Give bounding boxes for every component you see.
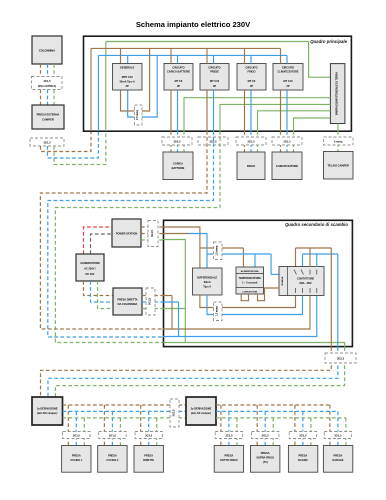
frigo load box bbox=[237, 152, 265, 180]
svg-text:Quadro secondario di scambio: Quadro secondario di scambio bbox=[285, 222, 348, 227]
alimentatore box bbox=[76, 254, 104, 281]
wire N drop presa cucina 2 bbox=[111, 411, 113, 445]
wire PE drop presa bagno bbox=[310, 418, 312, 446]
colonnina box bbox=[32, 36, 62, 64]
presa sopra frigo box bbox=[251, 446, 280, 473]
cable label 3G1,5 between derivazioni bbox=[170, 399, 179, 427]
svg-text:(lato DX camper): (lato DX camper) bbox=[37, 411, 57, 415]
svg-text:MTD C16: MTD C16 bbox=[122, 75, 133, 79]
svg-text:3G1,5: 3G1,5 bbox=[299, 433, 307, 437]
cable label 3G1,5 cucina 1 bbox=[63, 432, 90, 439]
wire L climatizzatore cable bbox=[280, 131, 282, 152]
svg-text:MT C16: MT C16 bbox=[210, 79, 220, 83]
svg-text:PRESA: PRESA bbox=[144, 454, 153, 458]
svg-text:DC 30V: DC 30V bbox=[86, 272, 95, 276]
presa garage box bbox=[323, 446, 352, 473]
wire N carica batterie cable bbox=[177, 131, 179, 152]
wire L drop presa bagno bbox=[294, 405, 296, 446]
barra equipotenziale di terra bbox=[330, 64, 345, 124]
wire N power station feed inside bbox=[189, 234, 272, 269]
wire N clima drops bbox=[286, 55, 288, 131]
cable label 3G1,5 sopra frigo bbox=[252, 432, 279, 439]
wire N climatizzatore cable bbox=[286, 131, 288, 152]
cable label 2,5 mmq bbox=[135, 105, 143, 125]
wire N prese circuit long run to secondary bbox=[48, 131, 214, 337]
svg-text:GENERALE: GENERALE bbox=[120, 66, 135, 70]
svg-text:DIFFERENZIALE: DIFFERENZIALE bbox=[197, 276, 217, 280]
breaker generale bbox=[113, 64, 143, 91]
wire L bus bbox=[91, 47, 281, 49]
svg-text:2a DERIVAZIONE: 2a DERIVAZIONE bbox=[191, 407, 212, 411]
wire PE riser input bbox=[105, 42, 107, 132]
wire L frigo drops bbox=[244, 48, 246, 131]
wire L drop presa dinette bbox=[140, 405, 142, 446]
presa cucina 1 box bbox=[62, 446, 91, 473]
svg-text:CARICA: CARICA bbox=[173, 162, 183, 166]
breaker circuito climatizzatore bbox=[273, 64, 303, 91]
wire L contattore output bbox=[310, 248, 331, 347]
wire PE drop presa cucina 1 bbox=[83, 418, 85, 446]
1a derivazione box bbox=[32, 397, 63, 425]
wire PE prese fan bbox=[220, 104, 330, 131]
svg-text:ALIMENTATORE: ALIMENTATORE bbox=[80, 261, 100, 265]
wire PE presa esterna to quadro principale bbox=[54, 131, 106, 165]
presa bagno box bbox=[288, 446, 317, 473]
wire L drop temporizzatore bbox=[242, 248, 244, 267]
svg-text:CIRCUITO: CIRCUITO bbox=[172, 66, 184, 70]
wire N label to presa esterna bbox=[47, 90, 49, 106]
wire L carica batterie cable bbox=[170, 131, 172, 152]
cable label 3G1,5 bagno bbox=[289, 432, 316, 439]
telaio camper box bbox=[324, 152, 354, 180]
svg-text:3G1,5: 3G1,5 bbox=[109, 433, 117, 437]
wire L power station feed inside bbox=[163, 227, 243, 268]
wire L drop contattore top bbox=[296, 248, 332, 267]
contattore box bbox=[279, 267, 324, 296]
cable label 3G1,5 garage bbox=[324, 432, 351, 439]
wire PE climatizzatore cable bbox=[293, 131, 295, 152]
svg-text:2NA - 2NC: 2NA - 2NC bbox=[299, 281, 312, 285]
svg-text:CIRCUITO: CIRCUITO bbox=[208, 66, 220, 70]
svg-text:CIRCUITO: CIRCUITO bbox=[282, 66, 294, 70]
presa dinette box bbox=[134, 446, 163, 473]
wire PE telaio from barra bbox=[337, 124, 339, 132]
svg-text:PRESA: PRESA bbox=[108, 454, 117, 458]
wire N differenziale out to contattore bottom bbox=[207, 295, 303, 315]
svg-text:BAGNO: BAGNO bbox=[298, 458, 307, 462]
svg-text:3G1,5: 3G1,5 bbox=[150, 229, 154, 237]
carica batterie load box bbox=[163, 152, 193, 180]
wire PE power station to panel bbox=[141, 239, 163, 241]
svg-text:1,5 mmq: 1,5 mmq bbox=[216, 306, 219, 316]
svg-text:30mA Tipo A: 30mA Tipo A bbox=[120, 80, 135, 84]
wire PE frigo cable bbox=[257, 131, 259, 152]
presa sotto frigo box bbox=[214, 446, 243, 473]
wire N colonnina bus inside bbox=[163, 296, 317, 337]
presa diretta da colonnina box bbox=[113, 288, 142, 315]
svg-text:3G1,5: 3G1,5 bbox=[334, 433, 342, 437]
svg-text:PRESA: PRESA bbox=[299, 454, 308, 458]
wire N drop presa garage bbox=[337, 411, 339, 445]
wire L frigo cable bbox=[244, 131, 246, 152]
wire L 2a east run bbox=[216, 404, 330, 406]
svg-text:FRIGO: FRIGO bbox=[247, 164, 255, 168]
wire PE power station feed inside bbox=[163, 240, 185, 343]
wire N colonnina to cable label bbox=[47, 64, 49, 77]
svg-text:3G1,5: 3G1,5 bbox=[148, 297, 152, 305]
svg-text:CLIMATIZZATORE: CLIMATIZZATORE bbox=[276, 164, 299, 168]
svg-text:2,5 mmq: 2,5 mmq bbox=[136, 110, 139, 120]
wire N drop presa sotto frigo bbox=[228, 411, 230, 445]
wire L prese circuit long run to secondary bbox=[40, 131, 207, 329]
wire L prese drops bbox=[206, 48, 208, 131]
cable label 3G1,5 sotto frigo bbox=[215, 432, 242, 439]
wire PE carica batterie cable bbox=[183, 131, 185, 152]
svg-text:TELAIO CAMPER: TELAIO CAMPER bbox=[327, 164, 349, 168]
svg-text:3G1,5: 3G1,5 bbox=[225, 433, 233, 437]
wire L clima drops bbox=[280, 48, 282, 131]
wire N power station to panel bbox=[141, 233, 163, 235]
cable label 3G1,5 frigo bbox=[236, 137, 266, 145]
svg-text:Quadro principale: Quadro principale bbox=[310, 39, 347, 44]
quadro secondario enclosure bbox=[164, 220, 353, 346]
svg-text:PRESA: PRESA bbox=[225, 454, 234, 458]
svg-text:CARICA BATTERIE: CARICA BATTERIE bbox=[167, 70, 190, 74]
svg-text:(TV): (TV) bbox=[263, 460, 268, 464]
svg-text:COLONNINA: COLONNINA bbox=[39, 49, 55, 53]
wire N presa esterna to quadro principale bbox=[48, 131, 99, 158]
cable label 3G1,5 25m bbox=[32, 77, 63, 90]
svg-text:3G1,5: 3G1,5 bbox=[73, 433, 81, 437]
svg-text:MT C6: MT C6 bbox=[248, 79, 256, 83]
wire N drop temporizzatore bbox=[254, 254, 256, 267]
breaker circuito prese bbox=[200, 64, 229, 91]
cable label 6 mmq telaio bbox=[324, 137, 354, 145]
wire PE bus to barra bbox=[106, 42, 331, 78]
svg-text:3G1,5: 3G1,5 bbox=[172, 409, 176, 417]
wire N drop contattore top bbox=[303, 254, 338, 267]
wire PE frigo fan bbox=[258, 111, 331, 131]
wire N drop presa dinette bbox=[148, 411, 150, 445]
svg-text:CAMPER: CAMPER bbox=[42, 118, 54, 122]
wire L generale output loop bbox=[121, 48, 150, 111]
wire PE secondary output down bbox=[55, 347, 344, 397]
wire PE batterie fan bbox=[184, 98, 330, 131]
wire N generale output loop bbox=[128, 55, 158, 117]
svg-text:1 ÷ 3 secondi: 1 ÷ 3 secondi bbox=[242, 282, 258, 285]
wire L presa diretta to panel bbox=[142, 295, 163, 297]
wire N prese drops bbox=[213, 55, 215, 131]
wire PE colonnina to cable label bbox=[53, 64, 55, 77]
wire PE drop presa sotto frigo bbox=[236, 418, 238, 446]
svg-text:CONTATTORE: CONTATTORE bbox=[242, 291, 257, 294]
wire L alimentatore presa diretta bbox=[84, 281, 114, 296]
svg-text:PRESA ESTERNA: PRESA ESTERNA bbox=[37, 113, 60, 117]
svg-text:ALIMENTAZIONE: ALIMENTAZIONE bbox=[241, 270, 259, 273]
wire L riser input bbox=[90, 48, 92, 131]
svg-text:GARAGE: GARAGE bbox=[332, 458, 343, 462]
wire N alimentatore presa diretta bbox=[91, 281, 114, 302]
cable label 3G2,5 secondary output bbox=[325, 353, 356, 363]
svg-text:PRESE: PRESE bbox=[210, 70, 219, 74]
svg-text:2P: 2P bbox=[213, 84, 216, 88]
climatizzatore load box bbox=[272, 152, 302, 180]
wire PE drop presa cucina 2 bbox=[119, 418, 121, 446]
cable label 3G1,5 power station bbox=[148, 221, 158, 247]
wire N bobina feed bbox=[271, 254, 279, 274]
wire L drop presa cucina 1 bbox=[67, 405, 69, 446]
presa cucina 2 box bbox=[98, 446, 127, 473]
cable label 1,5 mmq upper bbox=[214, 242, 223, 260]
svg-text:DA COLONNINA: DA COLONNINA bbox=[118, 302, 138, 306]
svg-text:6 mmq: 6 mmq bbox=[334, 139, 343, 143]
wire L label to presa esterna bbox=[40, 90, 42, 106]
cable label 1,5 mmq lower bbox=[214, 302, 223, 321]
wire L drop presa cucina 2 bbox=[103, 405, 105, 446]
svg-text:BARRA EQUIPOTENZIALE DI TERRA: BARRA EQUIPOTENZIALE DI TERRA bbox=[336, 72, 339, 115]
svg-text:PRESA DIRETTA: PRESA DIRETTA bbox=[117, 298, 137, 302]
breaker circuito carica batterie bbox=[164, 64, 193, 91]
cable label 3G2,5 prese bbox=[198, 137, 228, 145]
svg-text:3G2,5: 3G2,5 bbox=[173, 139, 181, 143]
svg-text:SOTTO FRIGO: SOTTO FRIGO bbox=[220, 458, 238, 462]
wire L presa esterna to quadro principale bbox=[41, 131, 92, 152]
wire N 2a east run bbox=[216, 410, 338, 412]
svg-text:3G1,5: 3G1,5 bbox=[262, 433, 270, 437]
wire telaio cable dashed bbox=[337, 131, 339, 152]
wire N bus bbox=[98, 54, 287, 56]
temporizzatore box bbox=[236, 267, 264, 294]
svg-text:3G1,5: 3G1,5 bbox=[43, 79, 51, 83]
wire coil U temporizzatore bbox=[241, 294, 248, 301]
svg-text:CONTATTORE: CONTATTORE bbox=[297, 277, 315, 281]
svg-text:POWER STATION: POWER STATION bbox=[116, 232, 138, 236]
wire PE alimentatore presa diretta bbox=[98, 281, 114, 309]
svg-text:3G1,5: 3G1,5 bbox=[247, 139, 255, 143]
wire DC- alimentatore to power station bbox=[91, 234, 113, 254]
svg-text:PRESA: PRESA bbox=[261, 451, 270, 455]
wire L drop presa sotto frigo bbox=[220, 405, 222, 446]
wire N batterie drops bbox=[177, 55, 179, 131]
svg-text:Schema impianto elettrico 230V: Schema impianto elettrico 230V bbox=[136, 20, 251, 29]
wire L colonnina bus inside bbox=[163, 296, 310, 330]
svg-text:MT C10: MT C10 bbox=[283, 79, 293, 83]
svg-text:CIRCUITO: CIRCUITO bbox=[245, 66, 257, 70]
wire N drop presa sopra frigo bbox=[264, 411, 266, 445]
svg-text:3G1,5: 3G1,5 bbox=[283, 139, 291, 143]
svg-text:AC 230V /: AC 230V / bbox=[84, 267, 96, 271]
wire L colonnina to cable label bbox=[40, 64, 42, 77]
wire PE label to presa esterna bbox=[53, 90, 55, 106]
wire L batterie drops bbox=[170, 48, 172, 131]
wire N riser input bbox=[97, 55, 99, 131]
svg-text:1,5 mmq: 1,5 mmq bbox=[216, 245, 219, 255]
power station box bbox=[112, 219, 141, 247]
cable label 3G1,5 clima bbox=[272, 137, 302, 145]
quadro principale enclosure bbox=[84, 36, 352, 131]
svg-text:Tipo A: Tipo A bbox=[203, 285, 211, 289]
wire N frigo drops bbox=[250, 55, 252, 131]
svg-text:(25m H07RN-F): (25m H07RN-F) bbox=[38, 84, 56, 88]
svg-text:BATTERIE: BATTERIE bbox=[172, 166, 185, 170]
svg-text:2P: 2P bbox=[286, 84, 289, 88]
svg-text:1a DERIVAZIONE: 1a DERIVAZIONE bbox=[37, 407, 58, 411]
wire PE bus inside bbox=[163, 343, 345, 348]
wire N 1a to 2a derivazione bbox=[63, 410, 187, 412]
wire N contattore output bbox=[317, 254, 338, 347]
cable label 3G1,5 dinette bbox=[135, 432, 162, 439]
wire L 1a to 2a derivazione bbox=[63, 404, 187, 406]
wire PE drop presa garage bbox=[345, 418, 347, 446]
svg-text:CLIMATIZZATORE: CLIMATIZZATORE bbox=[278, 71, 299, 74]
svg-text:2P: 2P bbox=[177, 84, 180, 88]
wire L secondary output down bbox=[41, 347, 332, 397]
wire PE presa diretta to panel bbox=[142, 308, 163, 310]
svg-text:FRIGO: FRIGO bbox=[247, 70, 255, 74]
wire DC+ alimentatore to power station bbox=[84, 227, 113, 254]
wire L power station to panel bbox=[141, 226, 163, 228]
svg-text:CUCINA 2: CUCINA 2 bbox=[106, 458, 119, 462]
wire PE prese circuit long run to secondary bbox=[55, 131, 220, 343]
svg-text:SOPRA FRIGO: SOPRA FRIGO bbox=[256, 456, 274, 460]
wire PE drop presa sopra frigo bbox=[272, 418, 274, 446]
wire PE clima fan bbox=[294, 118, 331, 131]
wire N frigo cable bbox=[250, 131, 252, 152]
wire N presa diretta to panel bbox=[142, 301, 163, 303]
cable label 3G1,5 under presa esterna bbox=[30, 138, 64, 146]
svg-text:PRESA: PRESA bbox=[334, 454, 343, 458]
presa esterna camper box bbox=[32, 105, 64, 129]
cable label 3G2,5 batterie bbox=[162, 137, 192, 145]
wire PE drop presa dinette bbox=[156, 418, 158, 446]
svg-text:3G1,5: 3G1,5 bbox=[43, 140, 51, 144]
breaker circuito frigo bbox=[237, 64, 266, 91]
svg-text:PRESA: PRESA bbox=[72, 454, 81, 458]
svg-text:30mA: 30mA bbox=[204, 280, 211, 284]
svg-text:2P: 2P bbox=[250, 84, 253, 88]
wire N drop presa cucina 1 bbox=[75, 411, 77, 445]
wire L differenziale out to contattore bottom bbox=[200, 295, 296, 308]
wire L drop presa garage bbox=[329, 405, 331, 446]
svg-text:BOBINA: BOBINA bbox=[281, 276, 284, 285]
svg-text:MT C6: MT C6 bbox=[175, 79, 183, 83]
wire PE 2a east run bbox=[216, 417, 346, 419]
svg-text:3G1,5: 3G1,5 bbox=[145, 433, 153, 437]
wire N drop presa bagno bbox=[302, 411, 304, 445]
svg-text:2P: 2P bbox=[126, 84, 129, 88]
svg-text:3G2,5: 3G2,5 bbox=[337, 357, 345, 361]
wire N drop into generale bbox=[127, 55, 129, 63]
wire L drop into generale bbox=[120, 48, 122, 63]
cable label 3G1,5 cucina 2 bbox=[99, 432, 126, 439]
wire L drop presa sopra frigo bbox=[256, 405, 258, 446]
2a derivazione box bbox=[186, 397, 216, 425]
wire coil temporizzatore to bobina bbox=[258, 288, 280, 301]
svg-text:CUCINA 1: CUCINA 1 bbox=[70, 458, 83, 462]
svg-text:DINETTE: DINETTE bbox=[143, 458, 154, 462]
cable label 3G1,5 presa diretta bbox=[146, 288, 155, 315]
wire PE 1a to 2a derivazione bbox=[63, 417, 187, 419]
wire N secondary output down bbox=[48, 347, 338, 397]
svg-text:TEMPORIZZATORE: TEMPORIZZATORE bbox=[239, 277, 262, 280]
differenziale box bbox=[193, 268, 223, 295]
svg-text:(lato SX camper): (lato SX camper) bbox=[191, 411, 211, 415]
